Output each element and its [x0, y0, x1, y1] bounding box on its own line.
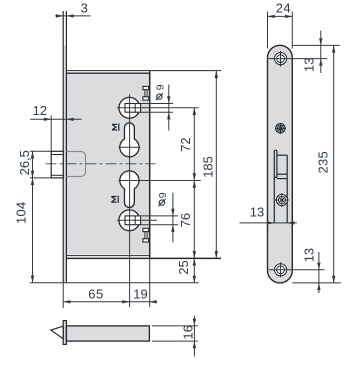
body top edge thick lower line — [66, 72, 149, 74]
body right edge extension down to 65/19 dim — [149, 258, 151, 307]
svg-text:9: 9 — [155, 84, 167, 90]
svg-text:12: 12 — [33, 103, 47, 118]
dia 9 upper dimension — [156, 93, 163, 100]
sigma mark lower — [111, 196, 118, 203]
case bottom bar — [66, 326, 149, 341]
extension lines right of bar for 16 dim — [152, 325, 198, 327]
svg-text:76: 76 — [178, 213, 193, 227]
faceplate side view right line (with extension up to 3-dim) — [65, 11, 67, 282]
svg-text:235: 235 — [315, 151, 330, 174]
dia 9 lower dimension — [158, 199, 165, 206]
upper follower square grid box — [125, 104, 141, 113]
svg-text:65: 65 — [88, 286, 104, 301]
svg-text:185: 185 — [201, 156, 216, 178]
sigma mark upper — [112, 123, 119, 130]
right side chained dimension line 72/76/25 — [193, 108, 195, 283]
lower grid box bottom line extension to dia9 dim — [141, 224, 178, 226]
screw hole top — [275, 51, 287, 67]
svg-text:25: 25 — [176, 260, 191, 274]
upper grid box bottom line extension to dia9 dim — [141, 111, 173, 113]
lock case body (side view) grey fill — [66, 73, 149, 254]
lower follower square grid box — [125, 216, 141, 225]
lower follower crosshair horizontal — [117, 219, 157, 221]
screw hole top centre line extension right for 13 dim — [269, 58, 328, 60]
faceplate side view left line (with extension up to 3-dim) — [62, 11, 64, 282]
svg-text:24: 24 — [276, 0, 291, 15]
faceplate bottom extension line right — [292, 282, 341, 284]
latch bolt body inside case (rounded) — [66, 152, 85, 177]
body top edge thin upper line + extension right for 185 dim — [66, 70, 221, 72]
screw hole bottom — [275, 262, 287, 277]
body bottom inner line — [66, 255, 149, 257]
lower follower hole circle — [119, 210, 140, 231]
upper screw post bracket at right edge — [143, 86, 149, 100]
lower keyhole (euro cylinder profile, bulb up) — [120, 171, 139, 208]
latch bolt head chamfer line bottom — [51, 174, 63, 176]
faceplate top extension line right (13 and 235 dims) — [292, 44, 340, 46]
lower grid box top line extension to dia9 dim — [141, 215, 178, 217]
upper follower crosshair horizontal + extension right for 72 dim — [117, 107, 199, 109]
svg-text:13: 13 — [301, 58, 316, 72]
lower screw post bracket at right edge — [143, 228, 149, 242]
lower keyhole bulb crosshair + extension right for 72/76 dims — [119, 180, 201, 182]
svg-text:3: 3 — [81, 1, 88, 16]
latch window in faceplate — [274, 150, 287, 223]
svg-text:13: 13 — [250, 205, 264, 220]
upper grid box top line extension to dia9 dim — [141, 103, 173, 105]
body bottom outer line + extension right for 185/76 dims — [63, 257, 221, 259]
upper keyhole bulb crosshair — [119, 146, 141, 148]
svg-text:26,5: 26,5 — [17, 150, 32, 175]
upper follower hole circle — [119, 97, 140, 118]
bolt centre dash-dot line — [46, 163, 156, 165]
screw hole bottom centre line extension right for 13 dim — [269, 269, 325, 271]
svg-text:16: 16 — [180, 325, 195, 339]
svg-text:19: 19 — [133, 286, 147, 301]
lower grid verticals — [134, 216, 136, 225]
body right edge — [149, 71, 151, 258]
svg-text:72: 72 — [178, 137, 193, 151]
faceplate bottom extension line (long, for 104 and 25 dims) — [30, 282, 199, 284]
faceplate stadium — [268, 45, 293, 283]
faceplate cross-section plate — [63, 321, 66, 345]
upper keyhole (euro cylinder profile, bulb down) — [120, 123, 139, 157]
svg-text:13: 13 — [302, 248, 317, 262]
faceplate side view grey strip — [63, 46, 66, 283]
latch bolt head chamfer line top — [51, 154, 63, 156]
screw hole second — [275, 123, 286, 134]
vertical centre line through holes — [129, 94, 131, 307]
faceplate side view left line extension down to 65 dim — [62, 282, 64, 308]
latch bolt head (protruding left) — [51, 151, 63, 178]
screw hole third (hatched) — [275, 193, 289, 207]
latch bevel triangle — [51, 326, 63, 339]
upper grid verticals — [134, 104, 136, 113]
svg-text:104: 104 — [13, 201, 28, 224]
svg-text:9: 9 — [157, 192, 169, 198]
